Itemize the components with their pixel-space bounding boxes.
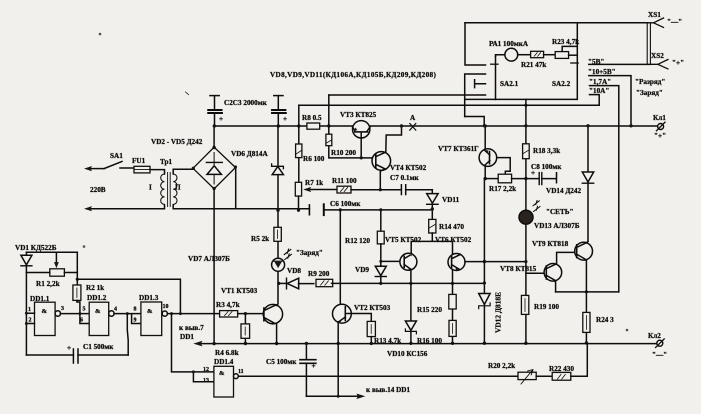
wire DD1.3 output line to R3: [167, 313, 219, 315]
svg-text:VТ7 КТ361Г: VТ7 КТ361Г: [438, 145, 479, 153]
node step on rail: [483, 124, 486, 127]
gate DD1.1 output bubble: [55, 311, 60, 316]
capacitor C2: [214, 96, 216, 125]
node VT4 emitter junction: [379, 188, 382, 191]
svg-text:R16 100: R16 100: [417, 337, 442, 345]
wire VT6 collector line to SETb chain node: [484, 261, 526, 263]
node 10+5V rail junction: [629, 124, 632, 127]
wire R3 to VT1 base: [238, 313, 264, 315]
svg-text:"10А": "10А": [589, 87, 609, 95]
svg-text:VD8,VD9,VD11(КД106А,КД105Б,КД2: VD8,VD9,VD11(КД106А,КД105Б,КД209,КД208): [270, 71, 436, 79]
node bridge drop on bus: [212, 342, 215, 345]
resistor R19: [521, 295, 528, 314]
svg-text:R12 120: R12 120: [345, 237, 370, 245]
svg-text:"СЕТЬ": "СЕТЬ": [546, 208, 574, 216]
svg-text:SA2.1: SA2.1: [500, 80, 519, 88]
wire DD1.4 feed drop and input pins: [172, 314, 214, 382]
wire R17 to C8: [512, 178, 539, 180]
wire 220V lower lead with arrow: [90, 205, 165, 209]
svg-text:"Разряд": "Разряд": [635, 78, 665, 86]
zener VD12 chain: [483, 179, 485, 344]
svg-text:VТ2 КТ503: VТ2 КТ503: [354, 304, 391, 312]
resistor R23: [555, 52, 568, 59]
node VT6 emitter on R9 line: [451, 282, 454, 285]
svg-text:DD1.3: DD1.3: [139, 294, 159, 302]
svg-text:"+": "+": [654, 132, 666, 140]
scan speck: [99, 33, 101, 35]
LED VD7: [272, 258, 285, 271]
svg-text:к выв.14 DD1: к выв.14 DD1: [366, 386, 410, 394]
wire SA2 bottom drop to L2: [525, 99, 527, 105]
svg-text:VТ4 КТ502: VТ4 КТ502: [390, 164, 427, 172]
svg-text:VТ3 КТ825: VТ3 КТ825: [340, 111, 377, 119]
zener VD10: [410, 283, 412, 321]
svg-text:R15 220: R15 220: [417, 306, 442, 314]
bridge inner diode symbol: [207, 166, 221, 175]
scan speck: [83, 246, 85, 248]
svg-text:R20 2,2k: R20 2,2k: [488, 362, 515, 370]
transistor VT4 (KT502): [372, 152, 391, 171]
svg-text:DD1: DD1: [180, 333, 194, 341]
node R4 junction: [244, 312, 247, 315]
diode VD14 from rail: [587, 126, 589, 241]
resistor R11: [337, 186, 351, 193]
wire secondary bottom to bridge right vertex riser: [173, 168, 236, 209]
resistor R12: [380, 210, 382, 231]
switch SA2 bracket middle contact tick: [475, 80, 486, 88]
wire VT6 emitter down through R15 R16 to bus: [452, 270, 454, 344]
svg-text:XS1: XS1: [648, 11, 661, 19]
svg-text:&: &: [42, 308, 48, 315]
svg-text:DD1.1: DD1.1: [30, 295, 50, 303]
svg-text:Кл2: Кл2: [648, 332, 661, 340]
wire VT4 collector up to rail: [386, 126, 402, 153]
svg-text:9: 9: [134, 318, 137, 324]
transistor VT7 (KT361G): [479, 149, 497, 167]
svg-text:VD13 АЛ307Б: VD13 АЛ307Б: [534, 222, 580, 230]
node VT3 base junction: [360, 156, 363, 159]
bridge rectifier VD2-VD5 diamond: [193, 147, 236, 189]
capacitor C1 (series in feedback line): [26, 354, 128, 356]
wire R2 riser: [76, 252, 78, 285]
resistor R21: [531, 51, 544, 57]
node rail R8-right junction: [327, 124, 330, 127]
node VT5 emitter junction: [409, 282, 412, 285]
node R19 bottom on bus: [524, 342, 527, 345]
wire VT3 base stub down to base line: [360, 132, 362, 158]
wire FU1 to transformer primary: [150, 170, 165, 174]
svg-text:R21 47k: R21 47k: [521, 61, 546, 69]
wire VT2 emitter long drop crossing bus: [337, 322, 339, 397]
svg-text:+: +: [219, 115, 223, 123]
switch SA1 blade: [104, 162, 122, 169]
svg-text:VТ6 КТ502: VТ6 КТ502: [435, 236, 472, 244]
node R24 bottom on bus: [585, 341, 588, 344]
node rail R8-left junction: [297, 124, 300, 127]
svg-text:С1 500мк: С1 500мк: [83, 343, 114, 351]
wire R21 to R23: [544, 54, 556, 56]
resistor R9: [316, 279, 333, 286]
zener VD6: [277, 126, 279, 283]
switch SA2.1 pole: [495, 56, 497, 99]
svg-text:3: 3: [61, 306, 64, 312]
wire bracket step down to rail: [465, 117, 485, 126]
wire 10+5V tap line down to rail: [589, 76, 631, 126]
svg-text:XS2: XS2: [651, 52, 664, 60]
node C1 right riser junction: [126, 312, 129, 315]
svg-text:VD10 КС156: VD10 КС156: [387, 350, 428, 358]
node rail-C3 junction: [277, 124, 280, 127]
svg-text:R23 4,7k: R23 4,7k: [552, 38, 579, 46]
resistor R10: [326, 134, 332, 146]
svg-text:R4 6.8k: R4 6.8k: [215, 349, 239, 357]
svg-text:R10 200: R10 200: [331, 149, 356, 157]
wire AC/common line right segment C6 to VD11 bottom: [324, 209, 433, 211]
resistor R18 on SETb chain: [525, 105, 527, 343]
wire VT7 emitter down to R17 line: [484, 166, 486, 178]
capacitor C3: [277, 96, 279, 126]
wire R7 wiper line with arrowhead: [309, 189, 337, 191]
wire C5 bottom line to arrow k vyv.14: [306, 395, 359, 397]
svg-text:"Заряд": "Заряд": [636, 89, 663, 97]
resistor R14: [429, 219, 436, 233]
meter PA1: [505, 48, 518, 61]
svg-text:R11 100: R11 100: [332, 177, 357, 185]
wire R14 fork to VT5 and VT6: [411, 233, 452, 253]
wire VT8 collector up to VT9 base: [557, 252, 575, 263]
wire big box left side with stub: [465, 23, 486, 65]
resistor R13: [367, 321, 375, 336]
resistor R22: [552, 372, 571, 380]
svg-text:5: 5: [83, 307, 86, 313]
svg-text:С2С3 2000мк: С2С3 2000мк: [224, 99, 268, 107]
wire C8 right with T end: [542, 173, 557, 183]
svg-text:&: &: [147, 308, 153, 315]
resistor R17: [498, 174, 511, 183]
capacitor C5: [305, 343, 307, 359]
svg-text:R14 470: R14 470: [439, 223, 464, 231]
node VD11-R14 junction on common line: [431, 207, 434, 210]
wire XS1-XS2 parallel pair: [647, 23, 650, 65]
svg-text:R18 3,3k: R18 3,3k: [533, 147, 560, 155]
wire VT8 base stub: [526, 272, 545, 274]
node rail-C2 junction: [213, 124, 216, 127]
capacitor C8: [539, 173, 542, 185]
node VD12 bottom on bus: [483, 342, 486, 345]
svg-text:"—": "—": [652, 351, 667, 359]
svg-text:VD8: VD8: [287, 267, 301, 275]
resistor R5: [274, 227, 281, 241]
node VT4 rail junction: [400, 124, 403, 127]
wire R17 line: [485, 178, 498, 180]
svg-text:4: 4: [114, 307, 117, 313]
connector XS1 chevron: [648, 18, 664, 27]
svg-text:R19 100: R19 100: [534, 303, 559, 311]
svg-text:Тр1: Тр1: [160, 158, 173, 166]
resistor R15: [449, 294, 456, 309]
svg-text:R2 1k: R2 1k: [86, 284, 104, 292]
switch SA2.2 pole and riser to top line: [576, 23, 578, 100]
svg-text:С8 100мк: С8 100мк: [531, 163, 562, 171]
wire R20 to R22: [536, 375, 552, 377]
transformer T1 core: [168, 173, 171, 207]
svg-text:"+": "+": [672, 59, 684, 67]
wire riser from rail to line L2 (right of R8): [328, 95, 330, 126]
transistor VT3 (KT825) on rail: [353, 121, 370, 138]
wire VT5 emitter down to R9 line: [410, 269, 412, 283]
switch SA2 left bracket contacts: [465, 74, 486, 117]
node VT8 base / VT6 collector / VD12 junction: [483, 260, 486, 263]
wire top box line to XS1: [465, 22, 648, 24]
svg-text:VD12 Д818Е: VD12 Д818Е: [494, 292, 503, 333]
gate DD1.4 output bubble: [234, 374, 239, 379]
wire VT9 emitter down through R24 to bus: [585, 260, 587, 343]
node R7 bottom on AC line: [297, 209, 300, 212]
wire C1 right riser: [126, 314, 129, 355]
diode VD11: [431, 190, 433, 220]
svg-text:DD1.2: DD1.2: [87, 294, 107, 302]
wire VD1 top line to R2 riser: [26, 251, 77, 253]
transformer T1 secondary winding: [173, 174, 177, 204]
wire secondary top to bridge left vertex: [173, 169, 193, 174]
svg-text:VТ8 КТ815: VТ8 КТ815: [500, 265, 537, 273]
svg-text:12: 12: [203, 367, 209, 373]
transistor VT5 (KT502): [400, 253, 417, 270]
wire VT8 emitter down to output line: [555, 281, 556, 292]
svg-text:VТ9 КТ818: VТ9 КТ818: [532, 240, 569, 248]
svg-text:"1,7А": "1,7А": [589, 78, 611, 86]
transistor VT9 (KT818): [575, 242, 593, 260]
wire R23 right lead: [569, 54, 578, 56]
wire VT7 base hook to R17: [497, 158, 511, 175]
resistor R8 on rail: [307, 123, 320, 129]
svg-text:11: 11: [238, 369, 244, 375]
node VT2 emitter on bus: [337, 342, 340, 345]
svg-text:VТ1 КТ503: VТ1 КТ503: [221, 287, 258, 295]
diode VD9: [380, 244, 382, 266]
test point A cross on rail: [410, 124, 416, 131]
svg-text:С5 100мк: С5 100мк: [266, 358, 297, 366]
wire DD1.1 output to DD1.2 inputs: [61, 314, 90, 324]
svg-text:VD2 - VD5 Д242: VD2 - VD5 Д242: [151, 138, 203, 146]
svg-text:&: &: [219, 370, 225, 377]
wire VT9 collector up to VD14: [586, 241, 588, 243]
svg-text:R17 2,2k: R17 2,2k: [489, 185, 516, 193]
wire main positive rail: [214, 125, 657, 127]
node R18 top on rail: [524, 124, 527, 127]
svg-text:6: 6: [80, 318, 83, 324]
wire meter branch: pole top to PA1: [496, 55, 506, 57]
wire VT6 collector to VT8 base node: [465, 261, 484, 263]
svg-text:+: +: [283, 115, 287, 123]
svg-text:VD11: VD11: [442, 196, 460, 204]
node on SETb chain: [524, 260, 527, 263]
svg-text:+: +: [531, 169, 535, 177]
svg-text:8: 8: [134, 307, 137, 313]
wire R10 branch: rail down through R10 to VT4 base line: [329, 126, 375, 158]
gate DD1.4: [214, 366, 234, 397]
wire VT2 collector to R13: [351, 314, 371, 322]
svg-text:VD6 Д814А: VD6 Д814А: [231, 150, 268, 158]
svg-text:2: 2: [29, 318, 32, 324]
svg-text:П: П: [175, 184, 181, 192]
svg-text:R5 2k: R5 2k: [251, 235, 269, 243]
transformer T1 primary winding: [161, 174, 165, 204]
svg-text:VD14 Д242: VD14 Д242: [546, 187, 581, 195]
capacitor C6 (series in line): [308, 205, 310, 215]
svg-text:R9 200: R9 200: [308, 270, 330, 278]
svg-text:"Заряд": "Заряд": [296, 249, 323, 257]
svg-text:SA2.2: SA2.2: [552, 80, 571, 88]
node VD7 bottom / VT1 collector on R9 line: [277, 282, 280, 285]
node VD10 bottom on bus: [409, 342, 412, 345]
svg-text:R1 2,2k: R1 2,2k: [36, 280, 60, 288]
resistor R1: [50, 269, 65, 276]
node bridge vertices: [212, 146, 215, 149]
wire VT2 base riser from C6 node: [340, 210, 345, 307]
wire AC/common line to C6: [236, 208, 310, 210]
node VD12 top on R9 line: [483, 281, 486, 284]
transistor VT6 (KT502): [448, 254, 465, 271]
svg-text:I: I: [149, 184, 152, 192]
diode VD1: [25, 252, 27, 355]
resistor R4: [244, 314, 246, 344]
svg-text:220В: 220В: [90, 186, 106, 194]
svg-text:1: 1: [28, 307, 31, 313]
wire VT1 collector up to VD7/R9 node: [276, 283, 278, 305]
resistor R6: [298, 126, 300, 182]
svg-text:А: А: [410, 114, 416, 122]
node VT7 rail junction: [484, 124, 487, 127]
node VD9 bottom on R9 line: [379, 282, 382, 285]
node VD6 bottom on AC line: [276, 209, 279, 212]
svg-text:&: &: [95, 308, 101, 315]
node R18 bottom junction: [524, 177, 527, 180]
wire 1,7A tap line down to VT8 output line: [590, 86, 619, 292]
resistor R16: [449, 320, 456, 336]
potentiometer R1 wiper arrow: [55, 252, 57, 263]
svg-text:R13 4,7k: R13 4,7k: [374, 337, 401, 345]
gate DD1.3 output bubble: [162, 311, 167, 316]
wire SA2 box bottom line: [465, 98, 577, 100]
svg-text:R3 4,7k: R3 4,7k: [216, 301, 240, 309]
node C6-right / VT2 base junction: [339, 208, 342, 211]
node feedback drop junction: [179, 312, 182, 315]
wire R23 top hook to riser: [562, 46, 577, 51]
svg-text:Кл1: Кл1: [653, 114, 666, 122]
resistor R3: [220, 311, 238, 317]
LED VD13: [519, 210, 533, 224]
svg-text:С7 0.1мк: С7 0.1мк: [390, 174, 419, 182]
scan speck: [186, 92, 189, 95]
wire L1 upper feed line to SA2: [329, 94, 465, 96]
diode VD8: [279, 282, 286, 284]
wire L2 lower feed line to SA2: [299, 104, 599, 106]
svg-text:"—": "—": [667, 18, 682, 26]
svg-text:13: 13: [203, 378, 209, 384]
svg-text:VD7 АЛ307Б: VD7 АЛ307Б: [188, 255, 230, 263]
potentiometer R7: [295, 182, 301, 196]
wire 10A tap line down to L2: [590, 95, 600, 106]
svg-text:+: +: [312, 362, 316, 370]
svg-text:к выв.7: к выв.7: [179, 324, 204, 332]
node VT9 emitter on output line: [585, 290, 588, 293]
node R2 line junction: [76, 278, 79, 281]
wire DD1.4 output line to R20: [238, 375, 518, 377]
svg-text:R22 430: R22 430: [549, 365, 574, 373]
wire R2 bottom to gate line: [77, 300, 80, 313]
wire C7 to VD11: [406, 189, 433, 191]
node VT7-R17 junction: [484, 177, 487, 180]
gate DD1.2: [89, 302, 109, 335]
wire riser from rail to line L1 (left of R8): [298, 105, 300, 126]
fuse FU1: [134, 166, 150, 173]
terminal Kl2: [657, 340, 663, 346]
wire DD1.1 input pins: [26, 313, 34, 323]
node DD1.4 feed junction: [170, 312, 173, 315]
potentiometer R20: [518, 372, 536, 379]
transistor VT2 (KT503): [333, 304, 352, 323]
wire VT4 emitter down to C7 line: [380, 169, 385, 189]
wire R1 leads: [26, 272, 77, 274]
svg-text:VD1 КД522Б: VD1 КД522Б: [15, 244, 57, 252]
wire VT8/VT9 output line to 1,7A riser: [556, 291, 619, 293]
svg-text:SA1: SA1: [110, 152, 123, 160]
resistor R2: [73, 285, 81, 300]
svg-text:10: 10: [163, 304, 169, 310]
svg-text:DD1.4: DD1.4: [214, 358, 234, 366]
wire R9 line to VD12 riser: [332, 282, 485, 284]
wire VT1 emitter down to bus: [276, 324, 278, 344]
svg-text:R24 3: R24 3: [596, 316, 614, 324]
svg-text:R8 0.5: R8 0.5: [302, 114, 322, 122]
scan speck: [410, 254, 411, 255]
wire bridge bottom vertex long drop to negative bus: [213, 189, 215, 344]
svg-text:VТ5 КТ502: VТ5 КТ502: [385, 236, 422, 244]
wire R13 bottom to bus: [370, 337, 372, 344]
node R16 bottom on bus: [451, 342, 454, 345]
transistor VT8 (KT815): [544, 264, 562, 282]
gate DD1.1: [35, 302, 56, 335]
node pin11 riser T-joint: [337, 395, 340, 398]
wire R11 to C7: [351, 189, 401, 191]
wire negative bus with left arrow: [199, 343, 657, 345]
connector XS2 chevron: [650, 60, 668, 69]
transistor VT1 (KT503): [263, 304, 282, 323]
capacitor C7: [401, 185, 405, 195]
wire 5V tap line to XS2: [589, 63, 650, 65]
wire bridge top vertex to positive rail: [213, 126, 215, 147]
wire VD8 to R9: [299, 283, 314, 285]
wire R22 riser up to bus: [571, 344, 588, 377]
node R4 bottom on bus: [244, 342, 247, 345]
resistor R24: [583, 312, 590, 332]
svg-text:РА1 100мкА: РА1 100мкА: [489, 40, 529, 48]
svg-text:+: +: [67, 344, 71, 352]
svg-text:FU1: FU1: [132, 157, 146, 165]
wire VT5 base line from VD9 riser: [381, 260, 400, 262]
svg-text:R7 1k: R7 1k: [305, 179, 323, 187]
wire 220V upper lead with arrow: [90, 168, 104, 170]
svg-text:"5В": "5В": [588, 58, 604, 66]
wire SA1 to FU1: [120, 167, 134, 169]
wire DD1.2 output to DD1.3 inputs: [114, 314, 141, 324]
svg-text:R6 100: R6 100: [303, 155, 325, 163]
wire long feedback line to DD1.3 output: [77, 279, 180, 313]
svg-text:С6 100мк: С6 100мк: [330, 200, 361, 208]
scan speck: [626, 329, 628, 331]
node L2 drop junction: [524, 104, 527, 107]
